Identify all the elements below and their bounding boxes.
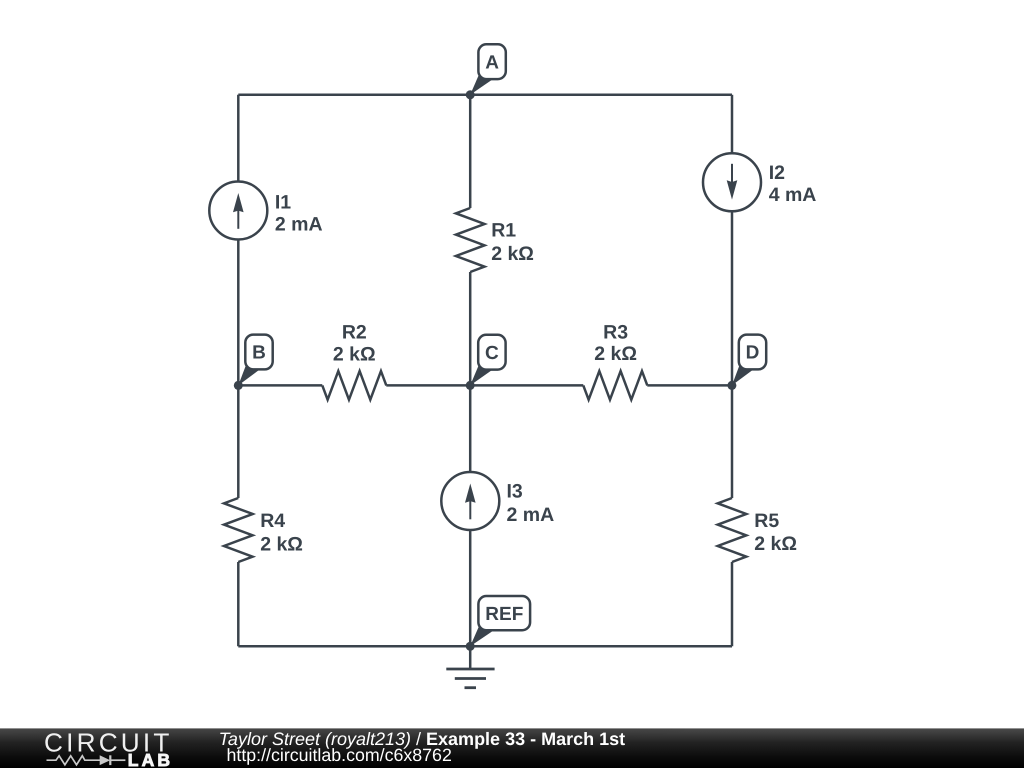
svg-text:I3: I3 bbox=[507, 481, 523, 503]
label R4 2 kOhm bbox=[260, 510, 303, 556]
node B bbox=[234, 335, 273, 390]
wire left rail middle (I1 to node B to R4) bbox=[237, 240, 240, 499]
label I1 2 mA bbox=[275, 191, 323, 235]
svg-text:I2: I2 bbox=[769, 162, 785, 184]
svg-text:R5: R5 bbox=[754, 510, 779, 532]
svg-text:R2: R2 bbox=[342, 321, 367, 343]
label R2 2 kOhm bbox=[333, 321, 376, 365]
label R5 2 kOhm bbox=[754, 510, 797, 555]
resistor R5 bbox=[718, 498, 747, 562]
node C bbox=[466, 335, 506, 390]
node D bbox=[727, 335, 766, 390]
wire left rail lower (R4 to bottom corner) bbox=[237, 562, 240, 646]
svg-text:B: B bbox=[252, 343, 266, 364]
current source I1 bbox=[209, 182, 267, 240]
current source I2 bbox=[703, 153, 761, 211]
svg-text:D: D bbox=[746, 343, 760, 364]
svg-text:2 kΩ: 2 kΩ bbox=[260, 534, 303, 556]
resistor R2 bbox=[322, 371, 386, 400]
svg-text:I1: I1 bbox=[275, 191, 291, 213]
svg-text:R1: R1 bbox=[491, 219, 516, 241]
footer url line bbox=[227, 745, 452, 765]
svg-text:R3: R3 bbox=[603, 321, 628, 343]
footer logo resistor-diode squiggle bbox=[47, 755, 126, 765]
wire middle rail (R3 to node D) bbox=[647, 384, 732, 387]
svg-text:REF: REF bbox=[485, 604, 523, 625]
resistor R3 bbox=[583, 371, 647, 400]
ground bbox=[446, 646, 494, 687]
svg-text:R4: R4 bbox=[260, 510, 285, 532]
resistor R4 bbox=[224, 498, 253, 562]
wire middle rail (node B to R2) bbox=[238, 384, 322, 387]
wire top rail right (node A to corner) bbox=[470, 94, 732, 97]
footer logo CIRCUIT bbox=[44, 728, 173, 758]
node A bbox=[466, 44, 506, 99]
label R3 2 kOhm bbox=[594, 321, 637, 365]
wire right rail upper (corner to I2) bbox=[731, 95, 734, 154]
wire middle rail (R2 to node C) bbox=[386, 384, 470, 387]
wire center rail (node C to I3) bbox=[469, 385, 472, 472]
current source I3 bbox=[441, 472, 499, 530]
svg-text:2 kΩ: 2 kΩ bbox=[333, 343, 376, 365]
svg-text:C: C bbox=[485, 343, 499, 364]
wire top rail left (corner to node A) bbox=[238, 94, 470, 97]
wire right rail middle (I2 to node D to R5) bbox=[731, 211, 734, 498]
footer title line bbox=[219, 729, 626, 749]
label I2 4 mA bbox=[769, 162, 817, 206]
label I3 2 mA bbox=[507, 481, 555, 527]
svg-text:2 mA: 2 mA bbox=[275, 213, 323, 235]
svg-text:2 kΩ: 2 kΩ bbox=[491, 243, 534, 265]
node REF bbox=[466, 596, 530, 651]
wire bottom rail left (corner to REF) bbox=[238, 645, 470, 648]
svg-text:LAB: LAB bbox=[128, 750, 173, 768]
wire center rail lower (I3 to REF) bbox=[469, 530, 472, 646]
svg-text:2 kΩ: 2 kΩ bbox=[594, 343, 637, 365]
wire middle rail (node C to R3) bbox=[470, 384, 583, 387]
label R1 2 kOhm bbox=[491, 219, 534, 265]
svg-text:4 mA: 4 mA bbox=[769, 184, 817, 206]
wire bottom rail right (REF to corner) bbox=[470, 645, 732, 648]
wire left rail upper (corner to I1) bbox=[237, 95, 240, 182]
svg-text:http://circuitlab.com/c6x8762: http://circuitlab.com/c6x8762 bbox=[227, 745, 452, 765]
footer bar bbox=[0, 673, 1024, 768]
resistor R1 bbox=[456, 208, 485, 272]
footer logo LAB bbox=[128, 750, 173, 768]
svg-text:2 mA: 2 mA bbox=[507, 504, 555, 526]
wire right rail lower (R5 to bottom corner) bbox=[731, 562, 734, 646]
svg-text:A: A bbox=[485, 52, 499, 73]
wire center rail (R1 to node C) bbox=[469, 272, 472, 385]
svg-text:2 kΩ: 2 kΩ bbox=[754, 533, 797, 555]
wire center rail upper (node A to R1) bbox=[469, 95, 472, 208]
